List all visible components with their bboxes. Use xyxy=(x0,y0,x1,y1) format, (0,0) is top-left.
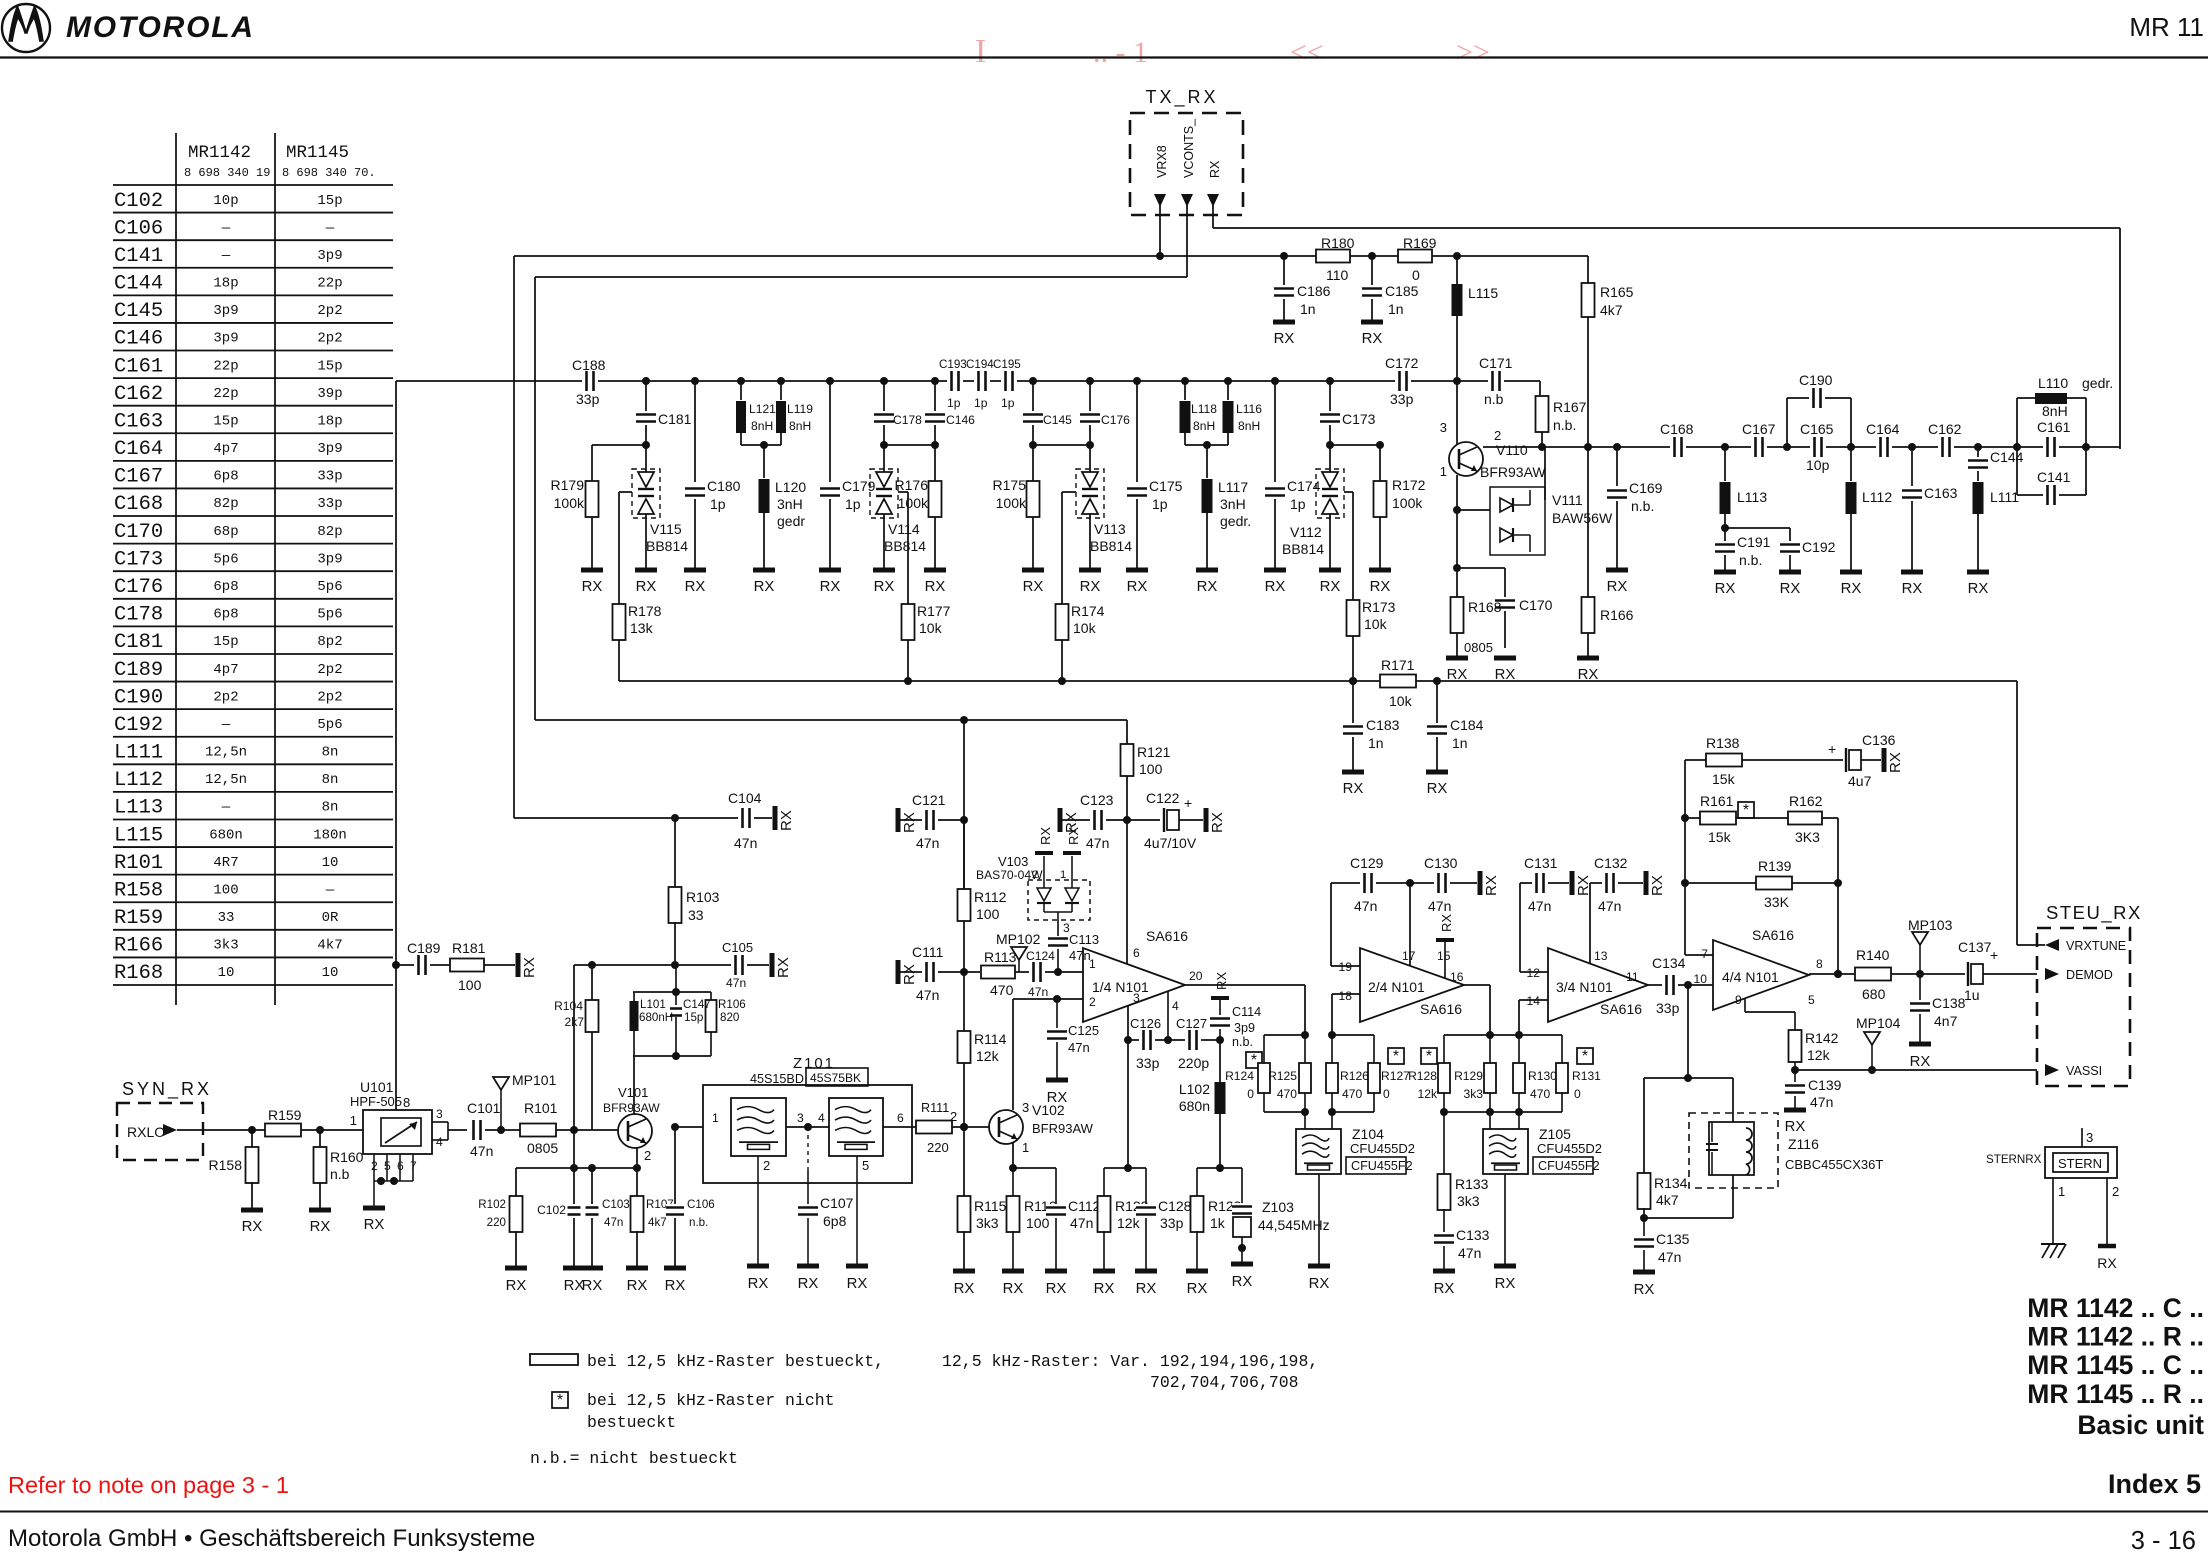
svg-text:C136: C136 xyxy=(1862,732,1896,748)
svg-text:C147: C147 xyxy=(683,998,711,1011)
svg-text:STEU_RX: STEU_RX xyxy=(2046,902,2142,924)
svg-text:47n: 47n xyxy=(726,976,746,990)
svg-text:—: — xyxy=(325,220,335,236)
svg-text:R101: R101 xyxy=(114,852,163,875)
svg-text:1n: 1n xyxy=(1388,301,1404,317)
svg-text:470: 470 xyxy=(1277,1087,1297,1101)
svg-text:—: — xyxy=(221,220,231,236)
svg-text:9: 9 xyxy=(1735,993,1742,1007)
svg-text:C189: C189 xyxy=(407,940,441,956)
svg-text:12k: 12k xyxy=(1418,1087,1438,1101)
svg-text:2: 2 xyxy=(763,1158,770,1173)
svg-text:C125: C125 xyxy=(1068,1023,1099,1038)
svg-text:C144: C144 xyxy=(1990,449,2024,465)
svg-text:RX: RX xyxy=(1232,1274,1253,1290)
svg-text:R106: R106 xyxy=(718,998,746,1011)
svg-text:Z104: Z104 xyxy=(1352,1126,1384,1142)
svg-text:R161: R161 xyxy=(1700,793,1734,809)
svg-text:RX: RX xyxy=(1214,972,1229,990)
svg-text:Z103: Z103 xyxy=(1262,1199,1294,1215)
svg-text:17: 17 xyxy=(1402,949,1416,963)
svg-text:680: 680 xyxy=(1862,986,1886,1002)
svg-text:R102: R102 xyxy=(478,1198,506,1211)
svg-text:3 - 16: 3 - 16 xyxy=(2131,1527,2196,1553)
svg-text:47n: 47n xyxy=(1810,1094,1833,1110)
svg-text:L116: L116 xyxy=(1236,402,1262,416)
svg-text:RX: RX xyxy=(1649,875,1666,896)
svg-text:1n: 1n xyxy=(1300,301,1316,317)
svg-text:C114: C114 xyxy=(1232,1005,1261,1019)
svg-text:5p6: 5p6 xyxy=(317,717,342,733)
svg-text:4: 4 xyxy=(436,1135,443,1149)
svg-text:C164: C164 xyxy=(1866,421,1900,437)
svg-text:3k3: 3k3 xyxy=(1457,1193,1480,1209)
svg-text:33p: 33p xyxy=(1656,1000,1680,1016)
svg-text:HPF-505: HPF-505 xyxy=(350,1094,402,1109)
svg-text:1: 1 xyxy=(1089,957,1096,971)
svg-text:C162: C162 xyxy=(1928,421,1962,437)
svg-text:10k: 10k xyxy=(919,620,943,636)
svg-text:470: 470 xyxy=(1342,1087,1362,1101)
svg-text:—: — xyxy=(221,800,231,816)
svg-text:bei 12,5 kHz-Raster bestueckt,: bei 12,5 kHz-Raster bestueckt, xyxy=(587,1352,884,1371)
svg-text:RX: RX xyxy=(665,1278,686,1294)
svg-text:220: 220 xyxy=(487,1216,506,1229)
svg-text:RX: RX xyxy=(636,579,657,595)
svg-text:U101: U101 xyxy=(360,1079,394,1095)
svg-text:BAW56W: BAW56W xyxy=(1552,510,1613,526)
svg-text:19: 19 xyxy=(1339,960,1353,974)
svg-text:RX: RX xyxy=(1320,579,1341,595)
svg-text:n.b.: n.b. xyxy=(689,1216,708,1229)
svg-text:18p: 18p xyxy=(213,276,238,292)
svg-text:C167: C167 xyxy=(1742,421,1776,437)
svg-text:R131: R131 xyxy=(1572,1069,1601,1083)
svg-text:470: 470 xyxy=(990,982,1014,998)
svg-text:10k: 10k xyxy=(1389,693,1413,709)
svg-text:C137: C137 xyxy=(1958,939,1992,955)
svg-text:0805: 0805 xyxy=(1464,640,1493,655)
svg-text:RX: RX xyxy=(685,579,706,595)
svg-text:47n: 47n xyxy=(1354,898,1377,914)
svg-text:82p: 82p xyxy=(317,524,342,540)
svg-text:C165: C165 xyxy=(1800,421,1834,437)
svg-text:3: 3 xyxy=(1133,991,1140,1005)
svg-text:C130: C130 xyxy=(1424,855,1458,871)
svg-text:RX: RX xyxy=(1265,579,1286,595)
svg-text:BB814: BB814 xyxy=(646,538,688,554)
svg-text:8: 8 xyxy=(1816,957,1823,971)
svg-text:4k7: 4k7 xyxy=(317,938,342,954)
svg-text:n.b.: n.b. xyxy=(1553,417,1576,433)
svg-text:15k: 15k xyxy=(1708,829,1732,845)
svg-text:SA616: SA616 xyxy=(1420,1001,1462,1017)
svg-text:RX: RX xyxy=(1434,1281,1455,1297)
svg-text:RX: RX xyxy=(847,1276,868,1292)
svg-text:R159: R159 xyxy=(114,907,163,930)
svg-text:RXLO: RXLO xyxy=(127,1124,165,1140)
svg-text:3nH: 3nH xyxy=(1220,496,1246,512)
svg-text:39p: 39p xyxy=(317,386,342,402)
svg-text:10k: 10k xyxy=(1073,620,1097,636)
svg-text:SA616: SA616 xyxy=(1600,1001,1642,1017)
svg-text:1: 1 xyxy=(712,1111,719,1125)
svg-text:RX: RX xyxy=(1780,581,1801,597)
svg-text:R129: R129 xyxy=(1454,1069,1483,1083)
svg-text:1p: 1p xyxy=(710,496,726,512)
svg-text:47n: 47n xyxy=(916,835,939,851)
svg-text:R173: R173 xyxy=(1362,599,1396,615)
svg-text:gedr.: gedr. xyxy=(2082,375,2113,391)
svg-text:0: 0 xyxy=(1412,267,1420,283)
svg-text:20: 20 xyxy=(1189,969,1203,983)
svg-text:15p: 15p xyxy=(213,634,238,650)
svg-text:R168: R168 xyxy=(1468,599,1502,615)
svg-text:L119: L119 xyxy=(787,402,813,416)
svg-text:2p2: 2p2 xyxy=(317,662,342,678)
svg-text:RX: RX xyxy=(775,957,792,978)
svg-text:V112: V112 xyxy=(1290,524,1322,540)
svg-text:C164: C164 xyxy=(114,438,163,461)
svg-text:R177: R177 xyxy=(917,603,951,619)
svg-text:2: 2 xyxy=(1494,428,1501,443)
svg-text:MP101: MP101 xyxy=(512,1072,557,1088)
svg-text:47n: 47n xyxy=(1528,898,1551,914)
svg-text:2: 2 xyxy=(644,1148,651,1163)
svg-text:18p: 18p xyxy=(317,413,342,429)
svg-text:8nH: 8nH xyxy=(789,419,811,433)
svg-text:100k: 100k xyxy=(554,495,585,511)
svg-text:47n: 47n xyxy=(1428,898,1451,914)
svg-text:STERN: STERN xyxy=(2058,1156,2102,1171)
svg-text:RX: RX xyxy=(1910,1054,1931,1070)
svg-text:8nH: 8nH xyxy=(1238,419,1260,433)
svg-text:C171: C171 xyxy=(1479,355,1513,371)
svg-text:BB814: BB814 xyxy=(1282,541,1324,557)
svg-text:6: 6 xyxy=(1133,946,1140,960)
svg-text:8p2: 8p2 xyxy=(317,634,342,650)
svg-text:3k3: 3k3 xyxy=(1464,1087,1484,1101)
svg-text:RX: RX xyxy=(1439,914,1454,932)
svg-text:RX: RX xyxy=(1887,752,1904,773)
svg-text:C131: C131 xyxy=(1524,855,1558,871)
svg-text:RX: RX xyxy=(901,964,918,985)
svg-text:10p: 10p xyxy=(1806,457,1830,473)
svg-text:5p6: 5p6 xyxy=(213,551,238,567)
svg-text:C146: C146 xyxy=(114,328,163,351)
svg-text:L101: L101 xyxy=(640,998,666,1011)
svg-text:1k: 1k xyxy=(1210,1215,1226,1231)
svg-text:SA616: SA616 xyxy=(1146,928,1188,944)
svg-text:0805: 0805 xyxy=(527,1140,558,1156)
svg-text:680n: 680n xyxy=(1179,1098,1210,1114)
svg-text:47n: 47n xyxy=(1068,1040,1090,1055)
svg-text:<<: << xyxy=(1290,36,1324,69)
svg-text:3: 3 xyxy=(1022,1100,1029,1115)
svg-text:15: 15 xyxy=(1437,949,1451,963)
svg-text:RX: RX xyxy=(798,1276,819,1292)
svg-text:8 698 340 70.: 8 698 340 70. xyxy=(282,166,376,180)
svg-text:n.b.: n.b. xyxy=(1631,498,1654,514)
svg-text:BFR93AW: BFR93AW xyxy=(1480,464,1546,480)
svg-text:33p: 33p xyxy=(317,469,342,485)
svg-text:C190: C190 xyxy=(1799,372,1833,388)
svg-text:RX: RX xyxy=(1127,579,1148,595)
svg-text:RX: RX xyxy=(778,810,795,831)
svg-text:47n: 47n xyxy=(1070,1215,1093,1231)
svg-text:Refer to note on page 3 - 1: Refer to note on page 3 - 1 xyxy=(8,1472,289,1498)
svg-text:RX: RX xyxy=(1047,1090,1068,1106)
svg-text:RX: RX xyxy=(1427,781,1448,797)
svg-text:5: 5 xyxy=(384,1159,391,1173)
svg-text:RX: RX xyxy=(1634,1282,1655,1298)
svg-text:C123: C123 xyxy=(1080,792,1114,808)
svg-text:6p8: 6p8 xyxy=(213,607,238,623)
svg-text:R139: R139 xyxy=(1758,858,1792,874)
svg-text:C104: C104 xyxy=(728,790,762,806)
svg-text:gedr: gedr xyxy=(777,513,805,529)
svg-text:C128: C128 xyxy=(1158,1198,1192,1214)
svg-text:4u7: 4u7 xyxy=(1848,773,1872,789)
svg-text:33p: 33p xyxy=(1136,1055,1160,1071)
svg-text:RX: RX xyxy=(1209,812,1226,833)
svg-text:1: 1 xyxy=(1440,464,1447,479)
svg-text:18: 18 xyxy=(1339,989,1353,1003)
svg-text:4/4 N101: 4/4 N101 xyxy=(1722,969,1779,985)
svg-text:220: 220 xyxy=(927,1140,949,1155)
svg-text:C145: C145 xyxy=(114,300,163,323)
svg-text:47n: 47n xyxy=(1458,1245,1481,1261)
svg-text:C103: C103 xyxy=(602,1198,630,1211)
svg-text:VRX8: VRX8 xyxy=(1155,145,1169,178)
svg-text:C133: C133 xyxy=(1456,1227,1490,1243)
svg-text:10k: 10k xyxy=(1364,616,1388,632)
svg-text:R158: R158 xyxy=(209,1157,243,1173)
svg-text:8nH: 8nH xyxy=(1193,419,1215,433)
svg-text:*: * xyxy=(1251,1052,1257,1069)
svg-text:15p: 15p xyxy=(317,358,342,374)
svg-text:C168: C168 xyxy=(114,493,163,516)
svg-text:RX: RX xyxy=(901,812,918,833)
svg-text:RX: RX xyxy=(1309,1276,1330,1292)
svg-text:3: 3 xyxy=(797,1111,804,1125)
svg-text:RX: RX xyxy=(1094,1281,1115,1297)
svg-text:22p: 22p xyxy=(317,276,342,292)
svg-text:C145: C145 xyxy=(1043,413,1072,427)
svg-text:8: 8 xyxy=(403,1095,410,1110)
svg-text:C139: C139 xyxy=(1808,1077,1842,1093)
svg-text:C195: C195 xyxy=(993,358,1021,371)
svg-text:VCONTS_: VCONTS_ xyxy=(1182,118,1196,178)
svg-text:R133: R133 xyxy=(1455,1176,1489,1192)
svg-text:3p9: 3p9 xyxy=(213,331,238,347)
svg-text:R121: R121 xyxy=(1137,744,1171,760)
svg-text:R171: R171 xyxy=(1381,657,1415,673)
svg-text:47n: 47n xyxy=(470,1143,493,1159)
svg-text:RX: RX xyxy=(1841,581,1862,597)
svg-text:16: 16 xyxy=(1450,970,1464,984)
svg-text:RX: RX xyxy=(1343,781,1364,797)
svg-text:C175: C175 xyxy=(1149,478,1183,494)
svg-text:8n: 8n xyxy=(322,772,339,788)
svg-text:R179: R179 xyxy=(551,477,585,493)
svg-text:R104: R104 xyxy=(554,999,583,1013)
svg-text:MR1145: MR1145 xyxy=(286,143,349,163)
svg-text:C107: C107 xyxy=(820,1195,854,1211)
svg-text:C181: C181 xyxy=(658,411,692,427)
svg-text:RX: RX xyxy=(310,1219,331,1235)
svg-text:C161: C161 xyxy=(2037,419,2071,435)
svg-text:C186: C186 xyxy=(1297,283,1331,299)
svg-text:BB814: BB814 xyxy=(1090,538,1132,554)
svg-text:I: I xyxy=(975,33,986,70)
svg-text:3: 3 xyxy=(436,1107,443,1121)
svg-text:C144: C144 xyxy=(114,273,163,296)
svg-text:BFR93AW: BFR93AW xyxy=(1032,1121,1094,1136)
svg-text:RX: RX xyxy=(1362,331,1383,347)
svg-text:C189: C189 xyxy=(114,659,163,682)
svg-text:C183: C183 xyxy=(1366,717,1400,733)
svg-text:RX: RX xyxy=(2097,1255,2117,1271)
svg-text:2: 2 xyxy=(950,1109,957,1124)
svg-text:L121: L121 xyxy=(749,402,776,416)
svg-text:n.b: n.b xyxy=(1484,391,1504,407)
svg-text:L113: L113 xyxy=(114,797,163,820)
svg-text:C180: C180 xyxy=(707,478,741,494)
svg-text:3p9: 3p9 xyxy=(213,303,238,319)
svg-text:2p2: 2p2 xyxy=(213,689,238,705)
svg-text:C170: C170 xyxy=(1519,597,1553,613)
svg-text:R178: R178 xyxy=(628,603,662,619)
svg-text:R167: R167 xyxy=(1553,399,1587,415)
svg-text:RX: RX xyxy=(754,579,775,595)
svg-text:L102: L102 xyxy=(1179,1081,1210,1097)
svg-text:C102: C102 xyxy=(537,1203,566,1217)
svg-text:100k: 100k xyxy=(996,495,1027,511)
svg-text:V111: V111 xyxy=(1552,492,1583,508)
svg-text:C134: C134 xyxy=(1652,955,1686,971)
svg-text:—: — xyxy=(325,882,335,898)
svg-text:C111: C111 xyxy=(912,944,944,960)
svg-text:5: 5 xyxy=(1808,993,1815,1007)
svg-text:Z101: Z101 xyxy=(793,1056,835,1072)
svg-text:*: * xyxy=(1743,802,1749,819)
svg-text:C105: C105 xyxy=(722,940,753,955)
svg-text:3p9: 3p9 xyxy=(1234,1021,1255,1035)
svg-text:RX: RX xyxy=(521,957,538,978)
svg-text:47n: 47n xyxy=(916,987,939,1003)
svg-text:RX: RX xyxy=(582,579,603,595)
svg-text:C191: C191 xyxy=(1737,534,1771,550)
svg-text:C192: C192 xyxy=(1802,539,1836,555)
svg-text:33p: 33p xyxy=(1390,391,1414,407)
svg-text:C173: C173 xyxy=(114,548,163,571)
svg-text:RX: RX xyxy=(1136,1281,1157,1297)
svg-text:RX: RX xyxy=(820,579,841,595)
svg-text:47n: 47n xyxy=(1028,985,1048,999)
svg-text:C101: C101 xyxy=(467,1100,501,1116)
svg-text:220p: 220p xyxy=(1178,1055,1209,1071)
svg-text:RX: RX xyxy=(506,1278,527,1294)
svg-text:3p9: 3p9 xyxy=(317,248,342,264)
svg-text:V113: V113 xyxy=(1094,521,1126,537)
svg-text:3: 3 xyxy=(1063,921,1070,935)
svg-text:R125: R125 xyxy=(1268,1069,1297,1083)
svg-text:V103: V103 xyxy=(998,854,1028,869)
svg-text:MR 11: MR 11 xyxy=(2129,12,2204,42)
svg-text:RX: RX xyxy=(1003,1281,1024,1297)
svg-text:2p2: 2p2 xyxy=(317,303,342,319)
svg-text:gedr.: gedr. xyxy=(1220,513,1251,529)
svg-text:L115: L115 xyxy=(114,824,163,847)
svg-text:8nH: 8nH xyxy=(2042,403,2068,419)
svg-text:TX_RX: TX_RX xyxy=(1145,87,1218,108)
svg-text:33K: 33K xyxy=(1764,894,1790,910)
svg-text:C146: C146 xyxy=(946,413,975,427)
svg-text:C178: C178 xyxy=(114,604,163,627)
svg-text:L112: L112 xyxy=(114,769,163,792)
svg-text:C163: C163 xyxy=(1924,485,1958,501)
svg-text:L120: L120 xyxy=(775,479,806,495)
svg-text:3K3: 3K3 xyxy=(1795,829,1820,845)
svg-text:8 698 340 19: 8 698 340 19 xyxy=(184,166,270,180)
svg-text:MR 1145 .. R ..: MR 1145 .. R .. xyxy=(2027,1379,2204,1409)
svg-text:2: 2 xyxy=(1089,995,1096,1009)
svg-text:1: 1 xyxy=(2058,1184,2065,1199)
svg-text:13: 13 xyxy=(1594,949,1608,963)
svg-text:6p8: 6p8 xyxy=(213,469,238,485)
svg-text:C192: C192 xyxy=(114,714,163,737)
svg-text:10: 10 xyxy=(1694,972,1708,986)
svg-text:7: 7 xyxy=(1701,947,1708,961)
svg-text:12,5 kHz-Raster: Var. 192,194,: 12,5 kHz-Raster: Var. 192,194,196,198, xyxy=(942,1352,1318,1371)
svg-text:1u: 1u xyxy=(1964,987,1980,1003)
svg-text:RX: RX xyxy=(1370,579,1391,595)
svg-text:R128: R128 xyxy=(1408,1069,1437,1083)
svg-text:4: 4 xyxy=(1172,999,1179,1013)
svg-text:C132: C132 xyxy=(1594,855,1628,871)
svg-text:1: 1 xyxy=(1022,1140,1029,1155)
svg-text:C168: C168 xyxy=(1660,421,1694,437)
svg-text:BAS70-04W: BAS70-04W xyxy=(976,868,1043,882)
svg-text:RX: RX xyxy=(954,1281,975,1297)
svg-text:RX: RX xyxy=(1046,1281,1067,1297)
svg-text:0: 0 xyxy=(1247,1087,1254,1101)
svg-text:C176: C176 xyxy=(114,576,163,599)
svg-text:10: 10 xyxy=(218,965,235,981)
svg-text:RX: RX xyxy=(1607,579,1628,595)
svg-text:8nH: 8nH xyxy=(751,419,773,433)
svg-text:100k: 100k xyxy=(898,495,929,511)
svg-text:15p: 15p xyxy=(213,413,238,429)
svg-text:4: 4 xyxy=(818,1111,825,1125)
svg-text:C167: C167 xyxy=(114,466,163,489)
svg-text:C126: C126 xyxy=(1130,1016,1161,1031)
svg-text:RX: RX xyxy=(1080,579,1101,595)
svg-text:22p: 22p xyxy=(213,386,238,402)
svg-text:n.b.: n.b. xyxy=(1739,552,1762,568)
svg-text:R158: R158 xyxy=(114,879,163,902)
svg-text:45S15BD: 45S15BD xyxy=(750,1072,804,1086)
svg-text:1n: 1n xyxy=(1368,735,1384,751)
svg-text:C141: C141 xyxy=(2037,469,2071,485)
svg-text:0R: 0R xyxy=(322,910,339,926)
svg-text:C127: C127 xyxy=(1176,1016,1207,1031)
svg-text:8n: 8n xyxy=(322,745,339,761)
svg-text:2/4 N101: 2/4 N101 xyxy=(1368,979,1425,995)
svg-text:*: * xyxy=(1393,1048,1399,1065)
svg-text:820: 820 xyxy=(720,1011,739,1024)
